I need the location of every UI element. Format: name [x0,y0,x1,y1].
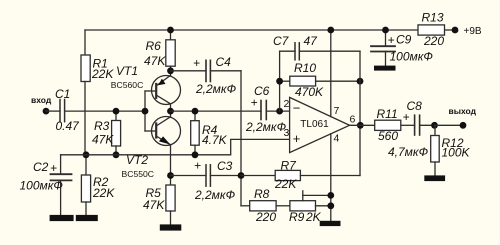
node R10 right / feedback [357,78,364,85]
node R6/VT1 emitter/C4 [167,67,174,74]
svg-text:TL061: TL061 [300,119,329,130]
svg-text:220: 220 [423,34,444,48]
wire C4 right vertical [240,71,242,206]
svg-text:2,2мкФ: 2,2мкФ [194,188,236,202]
wire C1 to bases [65,110,145,112]
svg-text:4,7мкФ: 4,7мкФ [388,145,429,159]
svg-text:вход: вход [31,95,52,105]
svg-text:R11: R11 [377,107,398,121]
resistor R7 [241,159,360,192]
ground (C9) [374,66,396,71]
wire top +9V rail [85,29,418,31]
ground (R12) [424,175,445,181]
ground (R5) [160,224,182,230]
wire bias line to pin3 [61,139,291,154]
svg-text:0.47: 0.47 [56,119,81,133]
resistor R4 [191,111,228,155]
svg-text:6: 6 [350,114,356,126]
node bases/input [142,108,149,115]
svg-text:4.7K: 4.7K [202,133,228,147]
svg-text:+: + [293,131,301,146]
capacitor C9 [371,30,433,66]
resistor R5 [143,176,175,225]
svg-text:100мкФ: 100мкФ [390,50,434,64]
node R3/input [113,108,120,115]
node rail/pin7 [327,27,334,34]
svg-text:470K: 470K [295,85,324,99]
transistor VT1 [111,64,181,111]
svg-text:47K: 47K [144,54,166,68]
capacitor C7 [273,34,360,60]
node collectors [167,108,174,115]
svg-text:100K: 100K [442,146,471,160]
svg-text:VT2: VT2 [126,153,148,167]
capacitor C4 [171,55,242,96]
resistor R10 [280,61,360,99]
svg-text:−: − [293,101,301,116]
svg-text:+: + [194,159,201,173]
capacitor C8 [388,99,435,159]
ground (C2) [50,215,74,221]
node R10 left [276,78,283,85]
svg-text:2,2мкФ: 2,2мкФ [195,82,237,96]
svg-text:R8: R8 [254,187,270,201]
svg-text:22K: 22K [274,177,297,191]
node bias R1/R2 [83,151,90,158]
wire pin6 to R11 [350,124,375,126]
svg-text:C2: C2 [33,160,49,174]
node input terminal [43,108,50,115]
node rail/R6 [167,27,174,34]
wire pin2 column up [279,51,281,111]
svg-text:R13: R13 [422,11,444,25]
svg-text:+: + [50,161,57,175]
wire input to C1 [46,110,60,112]
capacitor C3 [171,159,242,203]
node rail/C9 [382,27,389,34]
svg-text:560: 560 [378,129,398,143]
svg-text:2: 2 [284,98,290,110]
svg-text:22K: 22K [92,186,115,200]
resistor R1 [81,30,114,155]
svg-text:C1: C1 [55,87,70,101]
node R4 bottom [192,151,199,158]
svg-text:47K: 47K [143,198,165,212]
node C6/R10 branch [276,108,283,115]
wire feedback column [359,51,361,175]
resistor R13 [418,11,445,49]
svg-text:выход: выход [449,106,477,116]
svg-text:+9В: +9В [464,26,482,37]
svg-text:3: 3 [284,127,290,139]
svg-text:4: 4 [334,133,340,145]
svg-text:C4: C4 [216,55,232,69]
svg-text:R10: R10 [294,61,316,75]
svg-text:100мкФ: 100мкФ [20,179,64,193]
potentiometer R9 [289,191,331,224]
capacitor C1 [55,87,80,133]
transistor VT2 [122,111,181,179]
node R4 top [192,108,199,115]
svg-text:R6: R6 [146,39,162,53]
node output pin6 [357,122,364,129]
node C8/R12 [431,122,438,129]
resistor R6 [144,30,175,71]
svg-text:R3: R3 [94,119,110,133]
resistor R11 [375,107,415,143]
resistor R2 [81,155,115,215]
svg-text:+: + [251,96,258,110]
svg-text:R9: R9 [289,210,305,224]
svg-text:7: 7 [334,105,340,117]
capacitor C2 [20,155,72,215]
ground (pin4) [320,221,341,226]
svg-text:C3: C3 [217,159,233,173]
svg-text:47K: 47K [92,133,114,147]
svg-text:BC550C: BC550C [122,169,154,179]
svg-text:+: + [193,56,200,70]
svg-text:R7: R7 [281,159,298,173]
node VT2 emitter/C3/R5 [167,172,174,179]
svg-text:22K: 22K [91,67,114,81]
svg-text:C7: C7 [273,34,290,48]
wire to output terminal [435,124,464,126]
resistor R8 [241,187,290,224]
wire collectors to C6 [171,110,262,112]
svg-text:BC560C: BC560C [111,80,143,90]
resistor R12 [431,125,471,175]
svg-text:220: 220 [255,210,276,224]
svg-text:C9: C9 [396,33,412,47]
ground (R2) [76,215,98,221]
node +9V terminal [452,27,459,34]
wire R13 output to +9V terminal [445,29,456,31]
node A C3/C4/R7/R8 [238,172,245,179]
svg-text:C8: C8 [407,99,423,113]
resistor R3 [92,111,121,155]
svg-text:VT1: VT1 [116,64,138,78]
node R9 wiper [327,192,334,199]
node R9 right [327,202,334,209]
svg-text:2K: 2K [305,210,322,224]
svg-text:+: + [388,33,395,47]
svg-text:47: 47 [304,34,319,48]
capacitor C6 [245,84,291,134]
svg-text:2,2мкФ: 2,2мкФ [245,120,287,134]
node bias R3 [113,151,120,158]
op-amp U1 TL061 [284,30,356,221]
node output terminal [460,122,467,129]
wire base vertical [144,91,146,131]
